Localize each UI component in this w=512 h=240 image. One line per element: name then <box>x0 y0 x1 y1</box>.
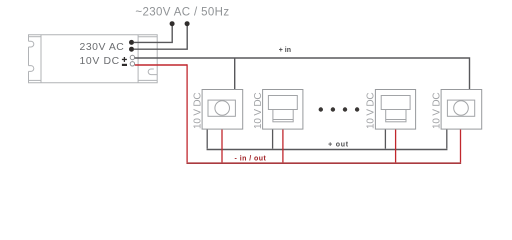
svg-text:10 V DC: 10 V DC <box>431 93 442 129</box>
svg-text:~230V AC / 50Hz: ~230V AC / 50Hz <box>135 7 229 19</box>
svg-text:+ in: + in <box>279 47 291 54</box>
svg-text:10V DC: 10V DC <box>80 56 120 67</box>
svg-text:10 V DC: 10 V DC <box>253 93 264 129</box>
svg-text:10 V DC: 10 V DC <box>366 93 377 129</box>
svg-text:230V AC: 230V AC <box>80 42 125 53</box>
svg-text:10 V DC: 10 V DC <box>192 93 203 129</box>
svg-text:- in / out: - in / out <box>235 155 267 162</box>
svg-text:+ out: + out <box>328 142 349 149</box>
